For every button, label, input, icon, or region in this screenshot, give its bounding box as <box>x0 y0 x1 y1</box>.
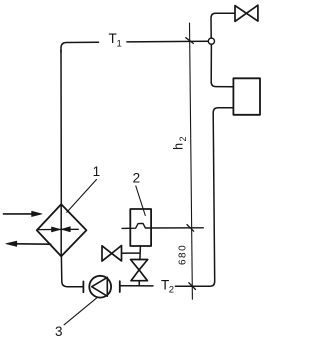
valve V1 top-right bowtie <box>235 5 258 21</box>
heat exchanger (component 1) diamond <box>37 204 87 256</box>
make-up valve (horizontal bowtie) <box>102 246 122 262</box>
dimension tick at tank membrane level <box>187 225 194 232</box>
svg-text:1: 1 <box>93 164 101 179</box>
wire T1 header right segment to junction <box>127 40 208 43</box>
svg-text:2: 2 <box>178 136 188 141</box>
flow arrow in (primary supply) <box>3 211 42 216</box>
svg-text:1: 1 <box>117 39 122 50</box>
wire junction up to make-up valve V1 <box>211 13 235 38</box>
wire riser bottom elbow to pump suction <box>61 256 82 286</box>
wire lower port of box down right riser to T2 return <box>175 108 233 286</box>
svg-text:h: h <box>172 143 186 150</box>
label T2 <box>161 277 174 295</box>
pump leader and label 3 <box>64 298 97 325</box>
pump circle <box>89 276 111 298</box>
label 1 with leader to heat exchanger <box>93 164 101 179</box>
heat exchanger internal flow line with opposed arrowheads <box>38 227 79 232</box>
wire T1 header left segment with corner into left riser <box>61 42 99 52</box>
boiler box (top right vessel) <box>233 78 260 115</box>
pump (component 3): flange bars <box>82 281 84 292</box>
svg-text:3: 3 <box>55 324 63 338</box>
wire tank bottom stub <box>139 246 142 260</box>
node: junction circle on riser <box>208 38 214 44</box>
expansion tank (component 2) box <box>130 209 151 246</box>
svg-text:2: 2 <box>169 285 174 296</box>
tank membrane line with bump, extended right as level extension line <box>122 223 203 228</box>
dimension tick at T2 level <box>189 283 196 290</box>
svg-text:680: 680 <box>178 244 189 265</box>
wire left riser from T1 down to heat exchanger <box>60 50 62 204</box>
svg-text:T: T <box>109 31 117 46</box>
wire T2 return segment from pump to label gap <box>120 285 153 287</box>
drain valve (vertical bowtie) <box>131 260 148 281</box>
wire vertical pipe through heat exchanger <box>60 204 62 256</box>
label T1 <box>109 31 122 49</box>
dimension line (vertical, h2 and 680) <box>190 23 193 299</box>
label 2 with leader to tank <box>133 170 141 185</box>
label h2 (rotated) <box>172 136 188 149</box>
pump impeller triangle <box>92 277 108 296</box>
wire make-up valve to tank stub <box>122 252 140 254</box>
wire drain valve bottom stub to T2 line <box>138 281 140 286</box>
svg-text:2: 2 <box>133 170 141 185</box>
label 680 (rotated) <box>178 244 189 265</box>
wire junction down to upper port of boiler box <box>211 44 233 86</box>
dimension tick at T1 level <box>186 38 194 44</box>
flow arrow out (primary return) <box>6 241 51 246</box>
